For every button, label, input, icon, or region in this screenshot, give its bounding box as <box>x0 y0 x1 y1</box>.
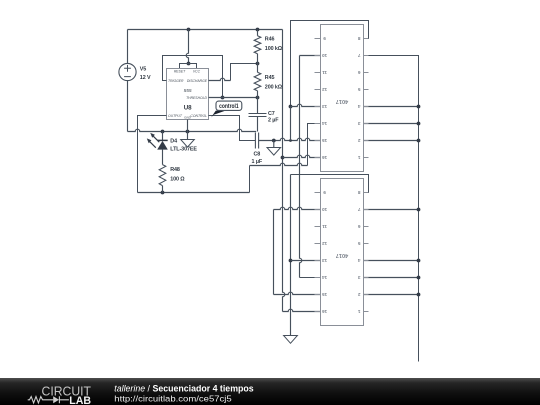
LED D4 <box>147 132 198 153</box>
svg-text:http://circuitlab.com/ce57cj5: http://circuitlab.com/ce57cj5 <box>114 393 232 403</box>
capacitor C8 <box>252 133 263 166</box>
wire threshold <box>209 97 258 99</box>
svg-text:LAB: LAB <box>69 395 91 405</box>
wire RESET-VCC bracket <box>180 64 197 69</box>
op-amp U8 555 timer box <box>167 69 209 120</box>
svg-text:2 µF: 2 µF <box>268 118 279 124</box>
svg-text:5: 5 <box>357 241 360 246</box>
svg-text:OUTPUT: OUTPUT <box>168 114 183 118</box>
svg-text:12: 12 <box>322 241 328 246</box>
svg-text:9: 9 <box>323 190 326 195</box>
svg-text:3: 3 <box>357 121 360 126</box>
wire output to right rail <box>364 260 419 262</box>
svg-text:16: 16 <box>322 309 328 314</box>
wire IC1 pin16 supply <box>283 155 321 157</box>
svg-text:11: 11 <box>322 224 327 229</box>
svg-text:U8: U8 <box>184 104 192 111</box>
svg-text:R45: R45 <box>265 75 275 81</box>
svg-text:14: 14 <box>322 121 328 126</box>
wire output to right rail <box>364 140 419 142</box>
resistor R48 <box>159 149 185 192</box>
wire IC2 pin16 supply <box>283 309 321 311</box>
IC U9 4017 decade counter <box>315 25 369 172</box>
svg-text:3: 3 <box>357 275 360 280</box>
svg-text:DISCHARGE: DISCHARGE <box>187 79 208 83</box>
wire +12V top rail <box>128 29 283 31</box>
wire C8 to ground and IC1 pin15 <box>259 138 321 140</box>
svg-text:1 µF: 1 µF <box>252 159 263 165</box>
svg-text:8: 8 <box>357 36 360 41</box>
wire ground rail under 555 <box>128 129 257 131</box>
resistor R46 <box>254 30 283 64</box>
wire VCC feed to 555 <box>186 30 188 64</box>
svg-text:200 kΩ: 200 kΩ <box>265 84 283 90</box>
svg-text:12 V: 12 V <box>140 75 151 81</box>
svg-text:4017: 4017 <box>336 252 348 258</box>
svg-text:9: 9 <box>323 36 326 41</box>
svg-text:10: 10 <box>322 53 328 58</box>
svg-text:7: 7 <box>357 53 360 58</box>
resistor R45 <box>254 64 283 98</box>
node control1 flag <box>211 101 242 117</box>
wire output to right rail <box>364 106 419 108</box>
svg-text:2: 2 <box>357 138 360 143</box>
svg-text:THRESHOLD: THRESHOLD <box>186 96 207 100</box>
wire control pin to C8 <box>209 116 256 141</box>
wire IC1 pin8 ground loop <box>291 21 369 107</box>
ground (555 GND pin) <box>181 120 195 148</box>
svg-text:14: 14 <box>322 275 328 280</box>
svg-text:D4: D4 <box>170 139 177 145</box>
svg-text:15: 15 <box>322 292 328 297</box>
svg-text:10: 10 <box>322 207 328 212</box>
ground (IC2) <box>284 336 298 344</box>
svg-text:R46: R46 <box>265 36 275 42</box>
svg-text:7: 7 <box>357 207 360 212</box>
voltage source V5 <box>119 30 151 132</box>
wire IC1 pin10 to IC2 clock <box>300 55 321 57</box>
svg-text:RESET: RESET <box>174 69 186 73</box>
svg-text:13: 13 <box>322 258 328 263</box>
wire trigger-threshold loop <box>163 56 223 98</box>
wire gnd link to pin15 row <box>290 107 292 141</box>
svg-text:control1: control1 <box>219 104 239 110</box>
wire output to right rail <box>364 294 419 296</box>
svg-text:8: 8 <box>357 190 360 195</box>
svg-text:100 Ω: 100 Ω <box>170 176 185 182</box>
svg-text:1: 1 <box>357 155 360 160</box>
svg-text:12: 12 <box>322 87 328 92</box>
wire 555 output to IC1 clock <box>138 116 167 193</box>
wire output to right rail <box>364 123 419 125</box>
svg-text:C7: C7 <box>268 111 275 117</box>
wire IC2 pin8 ground loop <box>291 175 369 193</box>
wire discharge to R46/R45 junction <box>209 78 231 80</box>
svg-text:16: 16 <box>322 155 328 160</box>
svg-text:6: 6 <box>357 70 360 75</box>
svg-text:555: 555 <box>184 88 192 94</box>
IC U10 4017 decade counter <box>315 179 369 326</box>
wire IC2 pin10 to pin15 reset link <box>274 207 321 209</box>
svg-text:11: 11 <box>322 70 327 75</box>
svg-text:5: 5 <box>357 87 360 92</box>
svg-text:4: 4 <box>357 104 360 109</box>
svg-text:1: 1 <box>357 309 360 314</box>
wire +12V rail down to ICs <box>283 30 285 312</box>
svg-text:V5: V5 <box>140 66 146 72</box>
svg-text:4017: 4017 <box>336 98 348 104</box>
wire IC2 pin13 <box>291 260 321 262</box>
svg-text:C8: C8 <box>253 151 260 157</box>
svg-text:TRIGGER: TRIGGER <box>168 79 184 83</box>
svg-text:6: 6 <box>357 224 360 229</box>
svg-text:CONTROL: CONTROL <box>190 114 207 118</box>
svg-text:4: 4 <box>357 258 360 263</box>
svg-text:LTL-307EE: LTL-307EE <box>170 147 197 153</box>
wire IC1 pin7 to right rail <box>364 56 419 362</box>
svg-text:2: 2 <box>357 292 360 297</box>
svg-text:100 kΩ: 100 kΩ <box>265 46 283 52</box>
svg-text:VCC: VCC <box>193 69 201 73</box>
wire output to right rail <box>364 277 419 279</box>
svg-text:tallerine / Secuenciador 4 tie: tallerine / Secuenciador 4 tiempos <box>114 384 253 394</box>
wire output to right rail <box>364 209 419 211</box>
svg-text:R48: R48 <box>170 167 180 173</box>
svg-text:13: 13 <box>322 104 328 109</box>
svg-text:15: 15 <box>322 138 328 143</box>
ground (C8) <box>267 141 281 156</box>
wire IC1 pin13 <box>291 104 321 106</box>
capacitor C7 <box>249 98 280 132</box>
